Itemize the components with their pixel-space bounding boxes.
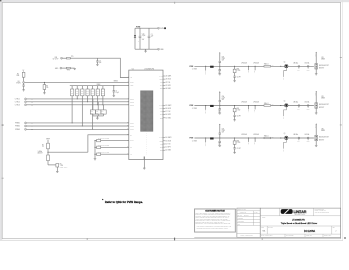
svg-text:10kP: 10kP xyxy=(91,112,94,114)
svg-text:R11: R11 xyxy=(81,91,83,93)
resistor R3 xyxy=(47,155,50,161)
svg-text:Refer to QSG for PVIN Range.: Refer to QSG for PVIN Range. xyxy=(105,200,143,204)
channel 3 xyxy=(189,123,329,153)
svg-text:R12: R12 xyxy=(86,91,88,93)
svg-text:LT3496EUFD: LT3496EUFD xyxy=(292,220,305,222)
svg-text:LED3: LED3 xyxy=(160,140,163,142)
pin ISP1 xyxy=(163,84,165,86)
svg-text:CTRL3: CTRL3 xyxy=(130,104,134,106)
svg-text:Triple Boost or Buck-Boost LED: Triple Boost or Buck-Boost LED Driver xyxy=(281,222,318,225)
zone tick left lower xyxy=(2,177,4,180)
address lines xyxy=(315,208,330,214)
svg-text:CTRL3: CTRL3 xyxy=(15,105,20,107)
svg-text:R13: R13 xyxy=(91,91,93,93)
svg-text:TECHNOLOGY: TECHNOLOGY xyxy=(294,214,306,216)
ground xyxy=(22,90,25,91)
svg-text:VREF: VREF xyxy=(97,84,101,86)
svg-text:MFG: MFG xyxy=(238,224,241,226)
svg-text:CTRL2: CTRL2 xyxy=(130,101,134,103)
terminal E2 GND xyxy=(158,48,165,51)
svg-text:PWM2: PWM2 xyxy=(130,126,134,128)
wire SHDN to IC xyxy=(25,81,129,83)
svg-text:1µF: 1µF xyxy=(151,36,154,38)
svg-text:11 ISP3: 11 ISP3 xyxy=(166,147,171,149)
svg-text:ISN3: ISN3 xyxy=(160,150,163,152)
capacitor C6 xyxy=(23,83,25,89)
resistor R4 2k xyxy=(47,140,49,165)
node freq adjust xyxy=(48,152,49,153)
wire pot common rail xyxy=(93,116,104,118)
pin GND bottom xyxy=(143,160,145,169)
svg-text:13 LED3: 13 LED3 xyxy=(166,140,172,142)
dark corner pixel xyxy=(0,0,1,1)
ground xyxy=(143,168,146,169)
svg-text:LT3496EUFD: LT3496EUFD xyxy=(144,68,154,70)
svg-text:*: * xyxy=(102,199,103,202)
outer sheet edge right xyxy=(341,0,343,241)
ferrite bead L4 xyxy=(67,57,71,59)
svg-text:R10: R10 xyxy=(76,91,78,93)
grey margin band left xyxy=(0,0,2,240)
svg-text:ISP3: ISP3 xyxy=(160,147,163,149)
U1 body xyxy=(129,70,163,159)
channel 2 xyxy=(189,91,329,121)
wire CTRL3 xyxy=(27,104,129,106)
pin LED3 xyxy=(163,140,165,142)
svg-text:LED2: LED2 xyxy=(160,108,163,110)
svg-text:R14: R14 xyxy=(97,91,99,93)
capacitor C1 xyxy=(148,28,154,49)
ground xyxy=(144,49,147,52)
resistor R14 xyxy=(96,86,99,106)
diode D4 xyxy=(134,35,136,37)
svg-text:16 ISP2: 16 ISP2 xyxy=(166,114,171,116)
resistor R12 xyxy=(86,86,89,103)
note: Refer to QSG xyxy=(102,199,143,204)
pin TG2 xyxy=(163,111,165,113)
svg-text:LINΞAR: LINΞAR xyxy=(294,210,307,214)
svg-text:(408) 432-1900 www.linear.com: (408) 432-1900 www.linear.com xyxy=(315,212,330,214)
svg-text:20 ISN1: 20 ISN1 xyxy=(166,88,171,90)
zone tick right mid xyxy=(340,124,342,127)
svg-text:Bryan 8/9: Bryan 8/9 xyxy=(244,215,249,217)
outer sheet edge bottom xyxy=(0,240,343,242)
resistor R13 xyxy=(91,86,94,130)
ground xyxy=(94,159,97,160)
svg-text:D5 1N4148 P13 SLB: D5 1N4148 P13 SLB xyxy=(98,145,109,147)
svg-text:10kP: 10kP xyxy=(101,112,104,114)
svg-text:SHDN: SHDN xyxy=(16,83,20,85)
zone tick bottom left xyxy=(86,238,89,240)
svg-text:ISP2: ISP2 xyxy=(160,114,163,116)
svg-text:VIN: VIN xyxy=(55,57,58,59)
resistor R15 xyxy=(101,86,104,106)
svg-text:SHDN: SHDN xyxy=(114,81,118,83)
wire VREF rail xyxy=(70,85,129,87)
svg-text:CTRL1: CTRL1 xyxy=(15,99,20,101)
channel 1 xyxy=(189,52,329,82)
svg-text:4.7µF: 4.7µF xyxy=(142,35,146,37)
svg-text:10 ISN3: 10 ISN3 xyxy=(166,150,171,152)
svg-text:D6 1N4148 P14 SLB: D6 1N4148 P14 SLB xyxy=(98,152,109,154)
pin CAP3 xyxy=(163,137,165,139)
thermal pad xyxy=(141,91,154,132)
svg-text:TP50: TP50 xyxy=(67,70,70,72)
grey margin band top xyxy=(0,0,349,2)
capacitor C7 VREF bypass xyxy=(113,85,120,97)
zone tick top center xyxy=(173,2,176,4)
svg-text:ISP1: ISP1 xyxy=(160,85,163,87)
ground xyxy=(73,68,76,69)
svg-text:PWM1: PWM1 xyxy=(130,122,134,124)
wire CTRL1 xyxy=(27,98,129,100)
pin CAP2 xyxy=(163,104,165,106)
zone tick bottom corner xyxy=(344,237,346,239)
dotted leader inside U1 xyxy=(146,134,148,156)
svg-text:SIZE: SIZE xyxy=(261,227,264,229)
pin LED1 xyxy=(163,78,165,80)
row SS option xyxy=(95,152,129,156)
pot P1 xyxy=(90,99,95,116)
svg-text:SS: SS xyxy=(130,147,132,149)
title area box xyxy=(260,208,340,237)
wire xyxy=(62,67,66,69)
svg-text:100k: 100k xyxy=(16,75,19,77)
zone tick bottom center xyxy=(173,238,176,241)
svg-text:12 TG3: 12 TG3 xyxy=(166,144,171,146)
pin LED2 xyxy=(163,107,165,109)
zone tick bottom right xyxy=(261,238,264,240)
wire CTRL2 xyxy=(27,101,129,103)
jumper R50 xyxy=(66,67,70,69)
svg-text:DC1268A: DC1268A xyxy=(304,229,316,233)
svg-text:CUSTOMER NOTICE: CUSTOMER NOTICE xyxy=(205,210,225,212)
terminal E1 PVIN xyxy=(158,27,164,30)
svg-text:PVIN: PVIN xyxy=(160,28,164,30)
resistor R6 100k xyxy=(23,72,25,82)
pin ISN2 xyxy=(163,117,165,119)
wire to VIN pin xyxy=(70,58,129,77)
svg-text:LED1: LED1 xyxy=(160,79,163,81)
pin ISN3 xyxy=(163,149,165,151)
pin ISP2 xyxy=(163,114,165,116)
svg-text:22 TG1: 22 TG1 xyxy=(166,82,171,84)
svg-text:SHDN: SHDN xyxy=(130,82,134,84)
resistor R9 xyxy=(71,86,74,124)
pin ISP3 xyxy=(163,146,165,148)
approvals box xyxy=(237,208,260,237)
svg-text:50V: 50V xyxy=(142,39,144,41)
wire xyxy=(70,67,74,69)
pin TG3 xyxy=(163,143,165,145)
svg-text:23 LED1: 23 LED1 xyxy=(166,79,172,81)
pot P3 xyxy=(101,105,106,116)
row SYNC option xyxy=(95,145,129,149)
pot P2 xyxy=(96,102,101,116)
zone tick left xyxy=(2,124,4,127)
wire xyxy=(63,57,67,59)
wire PWM3 xyxy=(27,128,129,130)
resistor R10 xyxy=(76,86,79,100)
svg-text:CTRL2: CTRL2 xyxy=(15,102,20,104)
capacitor C3 xyxy=(96,58,101,66)
svg-text:10kP: 10kP xyxy=(96,112,99,114)
wire to RT resistor xyxy=(48,164,57,166)
svg-text:RT: RT xyxy=(130,134,132,136)
row RT option xyxy=(95,138,129,142)
svg-text:CHECKED: CHECKED xyxy=(238,218,244,220)
LT logo xyxy=(281,209,307,216)
svg-text:SHEET 1 OF 1: SHEET 1 OF 1 xyxy=(324,235,332,237)
svg-text:1µF: 1µF xyxy=(99,62,102,64)
svg-text:FREQ=1MHz: FREQ=1MHz xyxy=(60,167,68,169)
pin CAP1 xyxy=(163,75,165,77)
size / dwg cells xyxy=(266,226,268,234)
bottom strip cells xyxy=(284,234,286,237)
title block bottom line xyxy=(194,236,340,238)
svg-text:DWG NO.: DWG NO. xyxy=(268,227,274,229)
svg-text:TG3: TG3 xyxy=(160,144,163,146)
left pin numbers xyxy=(127,76,129,155)
svg-text:ISN1: ISN1 xyxy=(160,88,163,90)
wire RT to IC xyxy=(88,135,129,152)
ground xyxy=(96,118,99,119)
svg-text:U1: U1 xyxy=(132,68,134,70)
svg-text:10k: 10k xyxy=(46,87,48,89)
wire PWM1 xyxy=(27,122,129,124)
svg-text:SYNC: SYNC xyxy=(130,140,134,142)
svg-text:PWM3: PWM3 xyxy=(130,129,134,131)
wire PWM2 xyxy=(27,125,129,127)
svg-text:R15: R15 xyxy=(102,91,104,93)
ground xyxy=(56,171,59,172)
pin ISN1 xyxy=(163,88,165,90)
svg-text:ISN2: ISN2 xyxy=(160,117,163,119)
resistor R11 xyxy=(81,86,84,127)
wire left vertical xyxy=(134,28,136,49)
pin TG1 xyxy=(163,81,165,83)
resistor R5 7.32k xyxy=(56,164,59,167)
svg-text:TG2: TG2 xyxy=(160,111,163,113)
svg-text:CTRL1: CTRL1 xyxy=(130,98,134,100)
wire bottom rail xyxy=(135,48,158,50)
capacitor C14 xyxy=(138,28,146,49)
svg-text:VIN: VIN xyxy=(130,77,132,79)
resistor R8 10k pulldown xyxy=(43,82,49,94)
svg-text:2: 2 xyxy=(336,231,337,233)
zone tick right upper xyxy=(340,56,342,59)
net flag PVIN square xyxy=(164,27,166,29)
svg-text:5V 4.7V*: 5V 4.7V* xyxy=(53,59,59,61)
customer notice box xyxy=(194,209,235,232)
svg-text:21 ISP1: 21 ISP1 xyxy=(166,85,171,87)
svg-text:PWM2: PWM2 xyxy=(15,126,20,128)
svg-text:VC: VC xyxy=(130,154,132,156)
svg-text:15 ISN2: 15 ISN2 xyxy=(166,117,171,119)
svg-text:TG1: TG1 xyxy=(160,82,163,84)
wire bus vertical xyxy=(94,141,96,159)
left pin names xyxy=(130,77,134,156)
svg-text:0.1µF: 0.1µF xyxy=(116,92,120,94)
svg-text:18 LED2: 18 LED2 xyxy=(166,108,172,110)
svg-text:VREF: VREF xyxy=(130,85,134,87)
svg-text:PWM3: PWM3 xyxy=(15,129,20,131)
svg-text:PWM1: PWM1 xyxy=(15,123,20,125)
wire top rail xyxy=(135,27,158,29)
svg-text:D4 1N4148 P12 SLB: D4 1N4148 P12 SLB xyxy=(98,138,109,140)
svg-text:17 TG2: 17 TG2 xyxy=(166,111,171,113)
